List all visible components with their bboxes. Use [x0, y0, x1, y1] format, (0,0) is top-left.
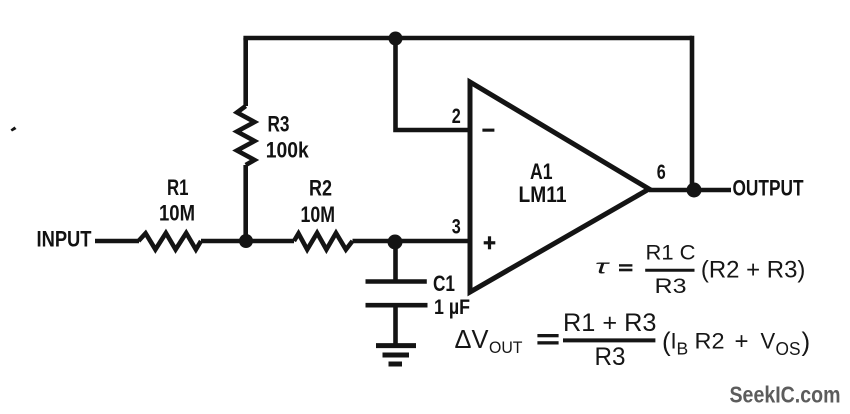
wire op-amp output to OUTPUT: [649, 188, 731, 193]
op-amp minus sign at pin 2: [482, 129, 494, 132]
resistor R3 body: [237, 106, 255, 165]
wire R1 to node A: [201, 239, 294, 244]
ground symbol: [376, 346, 416, 364]
svg-text:INPUT: INPUT: [37, 227, 92, 252]
junction node top: [389, 32, 403, 46]
resistor R2 body: [294, 233, 353, 250]
svg-text:SeekIC.com: SeekIC.com: [730, 382, 841, 408]
svg-text:R1 C: R1 C: [646, 242, 696, 265]
wire input to R1: [95, 239, 139, 244]
svg-text:ΔV: ΔV: [455, 324, 490, 354]
svg-text:10M: 10M: [159, 201, 195, 226]
svg-text:OS: OS: [776, 338, 801, 359]
svg-text:OUTPUT: OUTPUT: [733, 176, 804, 201]
wire node B down to C1: [393, 241, 398, 281]
wire R3 top: [243, 38, 248, 106]
svg-text:100k: 100k: [266, 138, 310, 163]
op-amp plus sign at pin 3: [484, 236, 496, 249]
svg-text:): ): [802, 327, 811, 357]
svg-text:B: B: [677, 339, 689, 359]
formula tau fraction bar: [645, 269, 694, 272]
resistor R1 body: [139, 233, 202, 250]
capacitor C1 bottom plate: [366, 303, 428, 308]
svg-text:R1 + R3: R1 + R3: [563, 309, 657, 337]
svg-text:R3: R3: [268, 112, 290, 137]
svg-text:1 µF: 1 µF: [434, 296, 470, 319]
svg-text:3: 3: [452, 216, 461, 239]
wire top junction to pin 2: [396, 38, 469, 130]
wire top feedback horizontal: [246, 38, 692, 40]
wire C1 to ground: [393, 305, 398, 345]
svg-text:V: V: [761, 329, 776, 354]
junction node output: [687, 183, 702, 198]
op-amp A1 triangle: [470, 82, 649, 292]
svg-text:R2: R2: [309, 176, 332, 201]
svg-text:(R2 + R3): (R2 + R3): [701, 257, 806, 284]
svg-text:OUT: OUT: [489, 338, 523, 357]
wire R3 bottom to node A: [243, 165, 248, 241]
svg-text:R3: R3: [655, 275, 687, 298]
svg-text:A1: A1: [530, 159, 553, 184]
svg-text:τ: τ: [595, 257, 611, 279]
svg-text:R3: R3: [595, 343, 626, 371]
svg-text:C1: C1: [433, 271, 455, 296]
svg-text:R1: R1: [167, 175, 189, 200]
formula delta equals sign: [537, 334, 558, 337]
formula tau equals sign: [619, 264, 632, 266]
svg-text:6: 6: [657, 161, 666, 184]
svg-text:10M: 10M: [301, 202, 336, 227]
wire R2 node B to pin 3: [353, 239, 469, 244]
formula delta fraction bar: [563, 338, 655, 342]
svg-text:R2: R2: [695, 329, 725, 354]
stray ink speck: [11, 127, 17, 132]
junction node A: [239, 234, 253, 248]
svg-text:+: +: [735, 328, 749, 355]
svg-text:2: 2: [452, 105, 461, 128]
svg-text:LM11: LM11: [519, 182, 567, 207]
junction node B: [388, 235, 403, 250]
capacitor C1 top plate: [366, 279, 427, 284]
wire feedback vertical right: [690, 36, 695, 190]
